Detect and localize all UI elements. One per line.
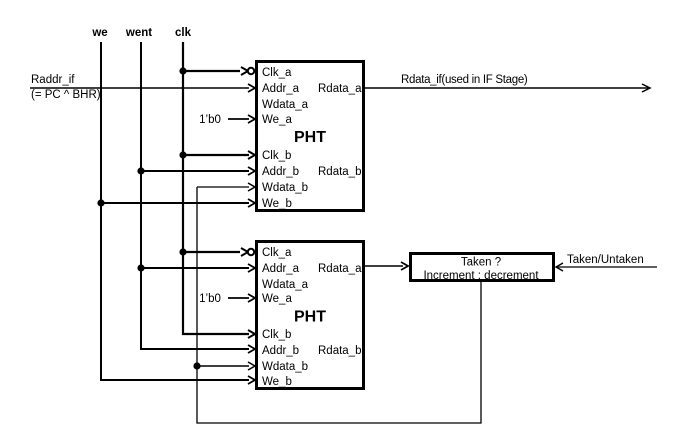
svg-text:Addr_a: Addr_a (262, 263, 300, 275)
arrowhead U1 We_a (248, 115, 255, 123)
svg-text:Addr_b: Addr_b (262, 166, 299, 178)
svg-text:Addr_b: Addr_b (262, 345, 299, 357)
svg-text:Clk_b: Clk_b (262, 329, 291, 341)
block PHT U2 (257, 242, 364, 389)
svg-text:We_b: We_b (262, 376, 292, 388)
wire clk vertical (183, 42, 249, 334)
svg-text:went: went (125, 27, 152, 39)
arrowhead U1 We_b (248, 199, 255, 207)
wire U2 Rdata_a to Taken box (365, 265, 403, 267)
svg-text:(= PC ^ BHR): (= PC ^ BHR) (31, 89, 101, 101)
svg-text:We_a: We_a (262, 293, 292, 305)
svg-text:Rdata_b: Rdata_b (318, 345, 361, 357)
arrowhead into Taken box right (556, 263, 563, 271)
svg-text:Taken/Untaken: Taken/Untaken (567, 254, 644, 266)
arrowhead U2 Addr_a (248, 264, 255, 272)
wire we vertical (101, 42, 249, 380)
arrowhead U2 Wdata_b (248, 362, 255, 370)
svg-text:Rdata_a: Rdata_a (318, 263, 362, 275)
wire feedback from Taken box to Wdata_b nets (197, 187, 481, 423)
svg-text:Raddr_if: Raddr_if (31, 74, 75, 86)
junction clk/U1 Clk_b (179, 151, 186, 158)
wire went to U2 Addr_a (141, 267, 249, 269)
arrowhead U2 Clk_b (248, 330, 255, 338)
svg-text:Clk_a: Clk_a (262, 247, 292, 259)
wire 1'b0 to U2 We_a (228, 297, 249, 299)
svg-text:clk: clk (175, 27, 192, 39)
arrowhead U1 Clk_a (241, 67, 248, 75)
svg-text:Wdata_a: Wdata_a (262, 99, 309, 111)
junction went/U1 Addr_b (137, 167, 144, 174)
svg-text:We_b: We_b (262, 198, 292, 210)
svg-text:Rdata_a: Rdata_a (318, 83, 362, 95)
svg-text:Wdata_b: Wdata_b (262, 182, 308, 194)
junction clk/U2 Clk_a (179, 248, 186, 255)
wire we to U1 We_b (101, 202, 249, 204)
wire went vertical (141, 42, 249, 349)
arrowhead U2 Clk_a (241, 248, 248, 256)
svg-text:Addr_a: Addr_a (262, 83, 300, 95)
svg-text:Clk_a: Clk_a (262, 67, 292, 79)
svg-text:Increment : decrement: Increment : decrement (423, 270, 539, 282)
arrowhead U2 Addr_b (248, 345, 255, 353)
svg-text:PHT: PHT (294, 309, 326, 326)
svg-text:1’b0: 1’b0 (199, 114, 221, 126)
arrowhead U1 Addr_a (248, 84, 255, 92)
arrowhead U2 We_a (248, 294, 255, 302)
wire clk to U1 Clk_a (183, 70, 240, 72)
bubble U2 Clk_a (248, 249, 254, 255)
wire Raddr_if to U1 Addr_a (30, 87, 249, 89)
svg-text:Taken ?: Taken ? (461, 257, 501, 269)
arrowhead U1 Wdata_b (248, 183, 255, 191)
svg-text:Clk_b: Clk_b (262, 150, 291, 162)
wire clk to U1 Clk_b (183, 154, 249, 156)
wire 1'b0 to U1 We_a (228, 118, 249, 120)
svg-text:Rdata_b: Rdata_b (318, 166, 361, 178)
junction went/U2 Addr_a (137, 264, 144, 271)
wire feedback to U2 Wdata_b (197, 365, 249, 367)
junction feedback/U2 Wdata_b (193, 362, 200, 369)
bubble U1 Clk_a (248, 68, 254, 74)
wire U1 Rdata_a output (365, 87, 648, 89)
arrowhead U1 Addr_b (248, 167, 255, 175)
junction clk/U1 Clk_a (179, 67, 186, 74)
block PHT U1 (257, 62, 364, 211)
wire went to U1 Addr_b (141, 170, 249, 172)
svg-text:We_a: We_a (262, 114, 292, 126)
wire feedback to U1 Wdata_b (197, 186, 249, 188)
block Taken? Increment:decrement (411, 254, 554, 283)
svg-text:Rdata_if(used in IF Stage): Rdata_if(used in IF Stage) (401, 74, 528, 86)
svg-text:1’b0: 1’b0 (199, 293, 221, 305)
svg-text:Wdata_a: Wdata_a (262, 279, 309, 291)
arrowhead Rdata_if (642, 84, 650, 92)
wire clk to U2 Clk_a (183, 251, 240, 253)
svg-text:PHT: PHT (294, 129, 326, 146)
arrowhead U2 We_b (248, 376, 255, 384)
svg-text:we: we (91, 27, 107, 39)
wire Taken/Untaken input (557, 266, 657, 268)
svg-text:Wdata_b: Wdata_b (262, 361, 308, 373)
arrowhead U1 Clk_b (248, 151, 255, 159)
arrowhead into Taken box left (401, 262, 408, 270)
junction we/U1 We_b (97, 199, 104, 206)
